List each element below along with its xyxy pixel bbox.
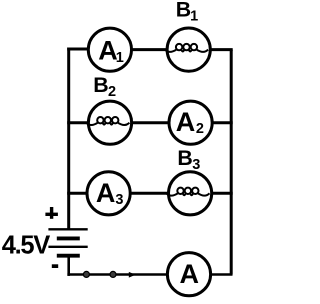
wire: branch3 right segment (212, 192, 233, 195)
ammeter A2 circle (169, 101, 212, 144)
lamp B3 circle (169, 172, 212, 215)
ammeter A (main) circle (167, 253, 210, 296)
svg-text:4.5V: 4.5V (2, 231, 50, 259)
lamp B1 filament coil (165, 44, 208, 52)
wire: branch2 right segment (212, 121, 233, 124)
junction node dot 1 (83, 271, 89, 277)
wire: branch3 middle segment (130, 192, 169, 195)
lamp B3 filament coil (166, 188, 209, 196)
wire: branch3 left segment (67, 192, 87, 195)
junction node dot 2 (110, 271, 116, 277)
wire: branch2 left segment (67, 121, 88, 124)
wire: branch1 right segment (210, 48, 232, 51)
svg-text:A: A (180, 259, 200, 289)
wire: bottom branch right segment (211, 273, 233, 276)
lamp B2 circle (88, 101, 131, 144)
current direction arrow on bottom wire (129, 272, 136, 278)
battery plate short thick 2 (57, 236, 80, 240)
label + (battery positive) (45, 213, 58, 216)
wire: branch1 middle segment (132, 48, 168, 51)
lamp B1 circle (167, 28, 210, 71)
wire: bottom branch left segment (67, 273, 167, 276)
wire: battery negative lead down (67, 256, 70, 276)
wire: right vertical bus (230, 50, 233, 275)
battery plate long thin 3 (48, 246, 87, 248)
lamp B2 filament coil (86, 117, 129, 125)
battery plate short thick negative bottom (57, 254, 80, 258)
ammeter A3 circle (87, 172, 130, 215)
label - (battery negative) (52, 264, 58, 268)
ammeter A1 circle (88, 28, 131, 71)
wire: left vertical bus (67, 48, 70, 230)
wire: branch2 middle segment (131, 121, 169, 124)
wire: branch1 left segment (67, 48, 88, 51)
battery BT 4.5V : plate long positive top (48, 228, 87, 230)
